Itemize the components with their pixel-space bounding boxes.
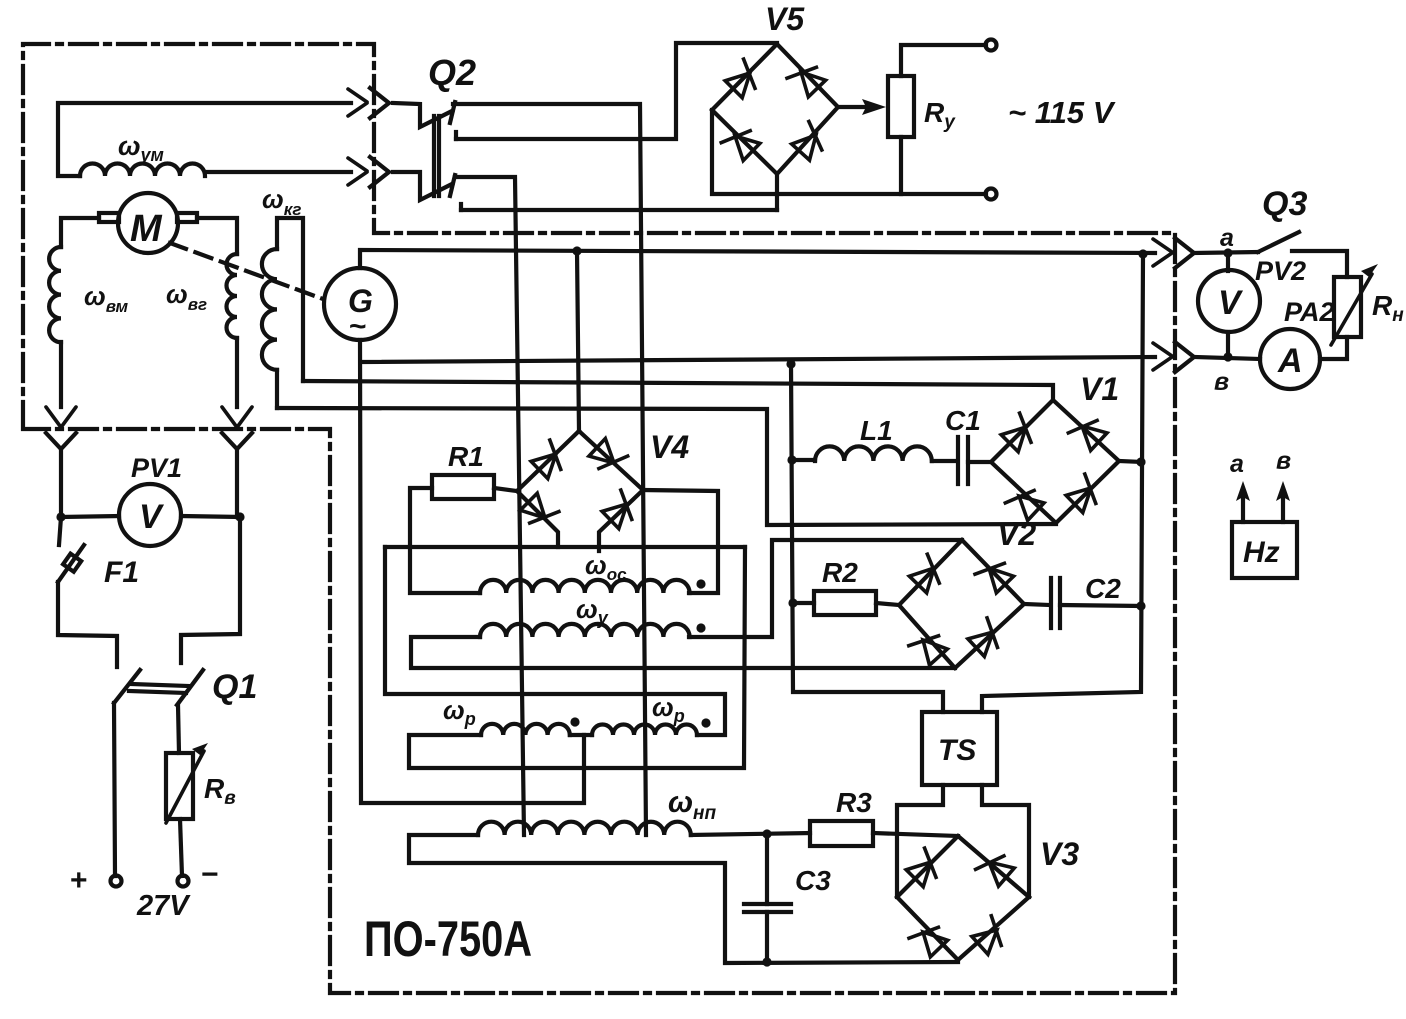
svg-text:в: в — [1276, 447, 1291, 475]
rectifier bridge V3 — [897, 836, 1029, 960]
wire switch to Rн — [1292, 251, 1347, 277]
wire node в to PA2 — [1194, 357, 1260, 359]
connector into Q2 upper input — [348, 88, 389, 118]
node ωу polarity dot — [696, 623, 705, 632]
wire ωвм down to boundary — [59, 342, 63, 407]
wire V5 left corner to 115V lower rail — [712, 110, 986, 194]
svg-text:Q1: Q1 — [212, 668, 257, 706]
winding ωум — [58, 103, 351, 176]
wire Q1 right pole to Rв — [178, 705, 179, 753]
wire Rн bottom to PA2 — [1320, 337, 1347, 359]
capacitor C3 — [744, 834, 791, 963]
switch Q3 — [1258, 232, 1299, 252]
winding ωнп — [478, 822, 691, 835]
winding ωр left half — [481, 724, 570, 735]
rectifier bridge V5 — [712, 44, 838, 174]
winding ωос — [480, 580, 690, 593]
dash-dot enclosure boundary (motor unit + converter unit) — [23, 44, 1175, 993]
wire ωвг down to boundary — [235, 338, 239, 407]
ammeter PA2 — [1260, 329, 1320, 389]
wire Ry top to terminal — [901, 45, 986, 76]
wire ωкг bottom to V1 bottom corner — [277, 408, 1056, 525]
transistor Q2 upper element — [393, 102, 456, 139]
node ωр right dot — [701, 718, 710, 727]
wire Q2 lower out 1 (down to ωнп tap) — [455, 177, 524, 835]
terminal - — [178, 876, 189, 887]
wire Q1 left pole to + terminal — [114, 703, 115, 876]
wire ωнп right to R3/C3 node — [691, 833, 810, 835]
winding ωр right half — [592, 725, 697, 736]
svg-text:L1: L1 — [860, 415, 893, 446]
wire ωкг top to V1 top corner — [303, 381, 1053, 400]
svg-text:F1: F1 — [104, 556, 139, 589]
wire Q2 upper out 1 (down to ωнп tap) — [453, 104, 646, 835]
node L1 feed — [787, 455, 796, 464]
wire R2 leads — [793, 601, 814, 605]
rheostat Rн — [1331, 264, 1378, 345]
rectifier bridge V1 — [991, 400, 1119, 523]
rectifier bridge V4 — [517, 431, 643, 551]
svg-text:V: V — [1218, 284, 1244, 322]
voltmeter PV2 — [1198, 253, 1260, 357]
generator G — [324, 268, 396, 340]
svg-text:V1: V1 — [1080, 371, 1119, 407]
node a — [1223, 248, 1232, 257]
svg-text:C1: C1 — [945, 405, 981, 436]
rheostat Rв — [166, 743, 208, 823]
wire V5 bottom to Q2 — [775, 174, 779, 210]
node ωр left dot — [570, 717, 579, 726]
motor M — [99, 193, 197, 253]
breaker F1 — [58, 517, 84, 582]
capacitor C2 — [1024, 578, 1141, 628]
node в — [1223, 352, 1232, 361]
node R2 feed — [788, 598, 797, 607]
connector down (right) — [222, 407, 252, 517]
rectifier bridge V2 — [899, 540, 1024, 668]
wire ωу right to V2 top — [689, 540, 962, 637]
svg-text:C2: C2 — [1085, 573, 1121, 604]
svg-text:−: − — [201, 858, 219, 891]
resistor R3 — [810, 821, 873, 846]
svg-text:PV1: PV1 — [131, 453, 182, 483]
wire M right brush to ωвг — [197, 218, 237, 254]
wire tap down to V4 top — [577, 251, 579, 431]
wire R3 to V3 top — [873, 833, 958, 836]
wire F1 down to Q1 left — [58, 582, 117, 667]
wire M left brush to ωвм — [61, 218, 99, 247]
winding ωвг — [227, 254, 238, 338]
node tap to V4 — [572, 246, 581, 255]
wire tap down to L1/R2/TS — [791, 364, 943, 712]
wire ωу left to output loop (to V2 bottom) — [411, 637, 955, 668]
svg-text:~: ~ — [349, 310, 367, 343]
svg-text:PV2: PV2 — [1255, 256, 1306, 286]
connector to PA2 (output в) — [1153, 342, 1194, 372]
svg-text:+: + — [70, 864, 88, 897]
svg-text:~ 115 V: ~ 115 V — [1008, 95, 1116, 130]
wire V4 bottom rail — [385, 545, 745, 549]
wire R1 right to V4 left — [494, 488, 517, 491]
svg-text:Q3: Q3 — [1262, 185, 1307, 223]
node tap to V1 right vertical — [1138, 249, 1147, 258]
transistor Q2 lower element — [393, 172, 461, 210]
svg-text:V: V — [139, 498, 165, 536]
svg-text:ПО-750А: ПО-750А — [364, 911, 532, 967]
svg-text:V4: V4 — [650, 429, 689, 465]
resistor R2 — [814, 591, 876, 615]
wire Ry bottom — [899, 137, 903, 194]
svg-text:V5: V5 — [765, 1, 805, 37]
wire G top lead / AC bus to Q3 — [360, 250, 1155, 268]
TS bottom leads to V3 — [897, 785, 943, 897]
svg-text:V2: V2 — [997, 516, 1036, 552]
connector into Q2 lower input — [348, 157, 389, 187]
node tap at 791 — [786, 359, 795, 368]
wire AC bus B (G to PA2) — [361, 357, 1155, 362]
terminal 115V lower — [986, 189, 997, 200]
svg-text:C3: C3 — [795, 865, 831, 896]
frequency meter Hz — [1232, 481, 1297, 578]
wire rail left branch down to ωр right end — [385, 547, 725, 735]
svg-text:Q2: Q2 — [428, 52, 476, 93]
node V1 right — [1136, 457, 1145, 466]
node ωос polarity dot — [696, 579, 705, 588]
connector to Q3 (output a) — [1153, 238, 1194, 268]
wire Q2 upper out 2 (to V5 top) — [456, 43, 777, 139]
wire Rв to - terminal — [180, 819, 182, 876]
winding ωу — [480, 624, 690, 637]
inductor L1 — [792, 446, 932, 461]
wire right bus vertical down to TS — [982, 254, 1143, 712]
winding ωкг — [262, 218, 303, 408]
arrow V5 right corner to Ry — [838, 99, 886, 115]
capacitor C1 — [932, 437, 991, 484]
svg-text:TS: TS — [938, 734, 976, 767]
svg-text:a: a — [1230, 450, 1244, 478]
svg-text:V3: V3 — [1040, 836, 1079, 872]
switch Q1 — [114, 670, 203, 705]
node R3/C3 — [762, 829, 771, 838]
svg-text:PA2: PA2 — [1284, 297, 1335, 327]
svg-text:в: в — [1214, 368, 1229, 396]
transformer unit TS — [922, 712, 997, 785]
winding ωвм — [49, 247, 61, 342]
wire V4 right corner to ωос right end — [643, 490, 718, 593]
wire V1 right to bus vertical — [1119, 461, 1143, 462]
terminal 115V upper — [986, 40, 997, 51]
terminal + — [111, 876, 122, 887]
Q2 actuator double bar — [432, 116, 436, 196]
svg-text:R3: R3 — [836, 787, 872, 818]
wire ωр centre tap — [570, 733, 592, 737]
resistor R1 — [432, 475, 494, 499]
svg-text:27V: 27V — [136, 890, 191, 922]
node C3 bottom — [762, 957, 771, 966]
svg-text:Hz: Hz — [1243, 536, 1280, 569]
svg-text:R1: R1 — [448, 441, 484, 472]
wire G bottom lead down to ωр tap — [360, 340, 584, 803]
svg-text:M: M — [130, 208, 163, 250]
wire rail right branch down to output loop / ωр left return — [409, 547, 745, 768]
voltmeter PV1 — [56, 484, 244, 546]
mechanical coupling M~G (dashed) — [170, 243, 323, 299]
connector down (left) — [46, 407, 76, 517]
wire ωнп left return to C3 bottom — [409, 835, 958, 963]
svg-text:a: a — [1220, 224, 1234, 252]
node C2 tap — [1136, 601, 1145, 610]
potentiometer Ry — [888, 76, 914, 137]
svg-text:A: A — [1277, 342, 1303, 380]
wire R1 left down to ωос — [410, 488, 480, 593]
svg-text:R2: R2 — [822, 557, 858, 588]
wire PV1 right down to Q1 right — [181, 517, 240, 663]
wire Q2 lower out 2 (to V5 bottom) — [461, 208, 777, 212]
wire node a to switch — [1194, 252, 1258, 253]
